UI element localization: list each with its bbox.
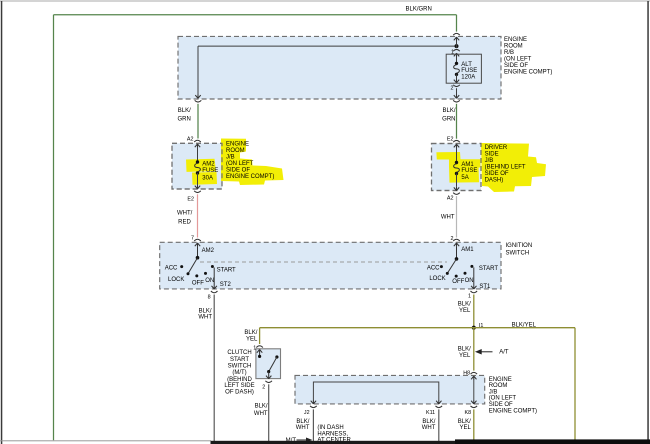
svg-text:ST2: ST2	[220, 282, 232, 288]
label BLK/WHT left	[198, 308, 212, 320]
wire AM1 feed inside switch	[456, 247, 458, 259]
connector R/B bottom left	[195, 94, 202, 102]
svg-text:E2: E2	[447, 137, 454, 143]
wire below AM2 fuse	[197, 173, 199, 185]
svg-text:2: 2	[262, 384, 265, 390]
wire inside R/B horizontal	[198, 45, 457, 47]
label CLUTCH START SWITCH	[224, 350, 254, 395]
wire to AM2 fuse	[197, 148, 199, 162]
svg-text:ENGINE COMPT): ENGINE COMPT)	[489, 408, 537, 414]
svg-text:(BEHIND LEFT: (BEHIND LEFT	[485, 164, 526, 170]
wire below AM1 fuse	[456, 174, 458, 187]
clutch switch arm and contacts	[267, 355, 278, 375]
labels left switch positions	[165, 266, 236, 287]
label AM2 FUSE 30A	[202, 161, 218, 181]
connector pin 1 of ALT fuse	[453, 49, 460, 57]
svg-text:A2: A2	[187, 136, 194, 142]
wire ST1	[473, 267, 475, 285]
wire AM2 feed inside switch	[197, 247, 199, 258]
svg-text:YEL: YEL	[459, 425, 471, 431]
label BLK/GRN left	[177, 108, 191, 123]
svg-text:YEL: YEL	[246, 336, 258, 342]
connector into R/B top	[453, 33, 460, 41]
wire BLK/YEL horizontal through I1	[260, 327, 575, 329]
connector E2 out of AM2 box	[194, 185, 201, 193]
svg-text:BLK/: BLK/	[244, 330, 257, 336]
svg-text:WHT: WHT	[198, 315, 212, 321]
switch contacts left	[180, 265, 214, 277]
svg-text:WHT: WHT	[441, 215, 455, 221]
svg-text:ON: ON	[205, 278, 214, 284]
svg-text:BLK/YEL: BLK/YEL	[512, 323, 537, 329]
svg-text:1: 1	[451, 49, 454, 55]
label IN DASH HARNESS	[317, 425, 351, 444]
wire inside bottom J/B H8 to K8	[473, 380, 475, 400]
connector A2 into AM2 box	[194, 140, 201, 148]
page frame left	[1, 1, 3, 444]
svg-text:AM2: AM2	[202, 248, 215, 254]
component box: CLUTCH START SWITCH solid box	[256, 349, 281, 379]
label IGNITION SWITCH	[506, 243, 533, 256]
svg-text:START: START	[230, 357, 249, 363]
svg-text:AM2: AM2	[202, 161, 215, 167]
svg-text:START: START	[217, 268, 236, 274]
label ENGINE ROOM J/B bottom	[489, 377, 537, 415]
label BLK/YEL above I1	[458, 302, 471, 315]
label BLK/WHT below K11	[422, 419, 436, 431]
connector A2 out of AM1 box	[453, 187, 460, 195]
svg-text:ALT: ALT	[461, 62, 472, 68]
wire BLK/YEL from pin 1	[473, 295, 475, 328]
arrow A/T pointer	[476, 350, 492, 354]
svg-text:(ON LEFT: (ON LEFT	[226, 161, 254, 167]
connector pin 2 of ALT fuse	[453, 79, 460, 87]
svg-text:RED: RED	[178, 220, 191, 226]
svg-text:GRN: GRN	[442, 117, 455, 123]
svg-text:SIDE OF: SIDE OF	[485, 171, 509, 177]
connector pin 2 out of clutch switch	[265, 375, 272, 383]
svg-text:BLK/: BLK/	[178, 108, 191, 114]
svg-text:I1: I1	[479, 323, 484, 329]
svg-text:WHT: WHT	[422, 425, 436, 431]
page frame right	[647, 1, 649, 444]
junction block: ENGINE ROOM J/B (AM2 fuse) dashed box	[172, 143, 222, 189]
label DRIVER SIDE J/B	[485, 145, 526, 184]
svg-text:AM1: AM1	[461, 247, 474, 253]
svg-text:YEL: YEL	[459, 308, 471, 314]
svg-text:SIDE: SIDE	[485, 151, 499, 157]
svg-text:CLUTCH: CLUTCH	[227, 350, 251, 356]
svg-text:K8: K8	[465, 410, 472, 416]
svg-text:OFF: OFF	[452, 279, 464, 285]
svg-text:J/B: J/B	[485, 158, 494, 164]
svg-text:OFF: OFF	[192, 281, 204, 287]
label BLK/WHT below clutch	[254, 403, 268, 417]
svg-text:8: 8	[208, 295, 211, 301]
wire to AM1 fuse	[456, 148, 458, 163]
wire BLK/YEL right vertical	[574, 328, 576, 441]
wire BLK/GRN drop into R/B	[456, 15, 458, 32]
labels right switch positions	[427, 265, 499, 285]
svg-text:BLK/: BLK/	[442, 108, 455, 114]
svg-text:R/B: R/B	[504, 50, 514, 56]
wire inside bottom J/B J2 to K11	[313, 382, 438, 400]
svg-text:BLK/: BLK/	[458, 347, 471, 353]
svg-text:7: 7	[191, 236, 194, 242]
wire BLK/GRN top horizontal	[54, 14, 457, 16]
svg-text:LOCK: LOCK	[429, 276, 445, 282]
highlight over AM1 fuse label	[436, 152, 480, 183]
svg-text:OF DASH): OF DASH)	[225, 390, 254, 396]
connector E2 into AM1 box	[453, 140, 460, 148]
linkage dashed line between wipers	[200, 261, 447, 263]
svg-text:(ON LEFT: (ON LEFT	[489, 396, 517, 402]
svg-text:J/B: J/B	[226, 155, 235, 161]
label WHT/RED	[177, 210, 193, 225]
wire below ALT fuse element	[456, 74, 458, 79]
page frame top	[0, 1, 650, 2]
label ALT FUSE 120A	[461, 62, 477, 80]
wire inside R/B right segment	[456, 41, 458, 48]
svg-text:BLK/GRN: BLK/GRN	[406, 7, 432, 13]
svg-text:LOCK: LOCK	[168, 277, 184, 283]
arrow M/T pointer	[297, 438, 312, 442]
svg-text:ENGINE COMPT): ENGINE COMPT)	[504, 70, 552, 76]
svg-text:FUSE: FUSE	[461, 168, 477, 174]
wire BLK/GRN left long vertical	[53, 15, 55, 441]
connector K8	[471, 400, 478, 408]
highlight over AM2 fuse label	[186, 159, 217, 185]
svg-text:BLK/: BLK/	[422, 419, 435, 425]
svg-text:SIDE OF: SIDE OF	[226, 168, 250, 174]
svg-text:ENGINE: ENGINE	[489, 377, 512, 383]
junction block border re-stroke: AM2 box	[172, 143, 222, 189]
svg-text:5A: 5A	[461, 175, 468, 181]
wire BLK/YEL below K8	[473, 409, 475, 441]
node junction above ALT fuse	[455, 44, 459, 48]
wire BLK/WHT below J2	[312, 409, 314, 441]
svg-text:START: START	[479, 266, 498, 272]
node I1	[472, 326, 476, 330]
svg-text:WHT: WHT	[296, 425, 310, 431]
svg-text:(BEHIND: (BEHIND	[227, 377, 252, 383]
connector pin 1 out of ignition switch	[471, 285, 478, 293]
label ENGINE ROOM J/B left	[226, 142, 274, 181]
svg-text:WHT/: WHT/	[177, 210, 193, 216]
svg-text:IGNITION: IGNITION	[506, 243, 533, 249]
wire BLK/WHT below clutch switch	[268, 384, 270, 441]
svg-text:1: 1	[468, 294, 471, 300]
switch wiper AM2	[188, 256, 199, 274]
svg-text:A/T: A/T	[499, 350, 509, 356]
bottom black bar	[211, 441, 461, 444]
label BLK/YEL clutch feed	[244, 330, 258, 342]
svg-text:(ON LEFT: (ON LEFT	[504, 57, 532, 63]
svg-text:ENGINE: ENGINE	[504, 37, 527, 43]
fuse ALT rect	[446, 54, 481, 83]
wire ST2	[213, 268, 215, 286]
svg-text:WHT: WHT	[254, 411, 268, 417]
wire to ALT fuse element	[456, 57, 458, 64]
wire BLK/WHT below K11	[438, 409, 440, 441]
junction block border re-stroke: AM1 box	[432, 144, 482, 191]
svg-text:ENGINE: ENGINE	[226, 142, 249, 148]
svg-text:DASH): DASH)	[485, 177, 504, 183]
svg-text:ROOM: ROOM	[489, 383, 508, 389]
svg-text:K11: K11	[426, 410, 435, 416]
wire BLK/YEL I1 to H8	[473, 328, 475, 371]
connector pin 2 into ignition switch	[453, 239, 460, 247]
svg-text:DRIVER: DRIVER	[485, 145, 508, 151]
label BLK/GRN right	[442, 108, 456, 123]
fuse ALT element	[454, 62, 460, 76]
connector J2	[310, 400, 317, 408]
label BLK/YEL below K8	[458, 419, 472, 431]
svg-text:ACC: ACC	[165, 266, 178, 272]
svg-text:SIDE OF: SIDE OF	[489, 402, 513, 408]
wire BLK/YEL drop to clutch switch	[259, 328, 261, 344]
svg-text:ON: ON	[465, 278, 474, 284]
svg-text:BLK/: BLK/	[458, 419, 471, 425]
svg-text:LEFT SIDE: LEFT SIDE	[224, 383, 254, 389]
svg-text:(IN DASH: (IN DASH	[317, 425, 343, 431]
svg-text:ROOM: ROOM	[504, 44, 523, 50]
wire BLK/GRN right branch	[456, 104, 458, 139]
svg-text:ROOM: ROOM	[226, 148, 245, 154]
label AM1 FUSE 5A	[461, 162, 477, 181]
svg-text:BLK/: BLK/	[199, 308, 212, 314]
svg-text:1: 1	[253, 346, 256, 352]
svg-text:SIDE OF: SIDE OF	[504, 63, 528, 69]
highlight over left ENGINE ROOM J/B label	[221, 139, 284, 186]
bottom thin rule left	[0, 440, 211, 441]
switch contacts right	[440, 265, 474, 278]
svg-text:BLK/: BLK/	[255, 403, 268, 409]
svg-text:30A: 30A	[202, 175, 213, 181]
component box: IGNITION SWITCH dashed box	[160, 242, 501, 289]
wire inside R/B left drop	[197, 46, 199, 94]
connector pin 1 into clutch switch	[256, 346, 263, 354]
label BLK/YEL below I1	[458, 347, 471, 359]
svg-text:SWITCH: SWITCH	[228, 364, 252, 370]
svg-text:H8: H8	[463, 371, 470, 377]
svg-text:A2: A2	[447, 196, 454, 202]
svg-text:E2: E2	[187, 196, 194, 202]
fuse AM1 element	[454, 161, 460, 175]
svg-text:J2: J2	[304, 410, 310, 416]
connector pin 8 out of ignition switch	[211, 285, 218, 293]
svg-text:ST1: ST1	[479, 284, 491, 290]
label BLK/WHT below J2	[296, 419, 310, 431]
fuse AM2 element	[195, 160, 201, 174]
svg-text:2: 2	[451, 86, 454, 92]
svg-text:ENGINE COMPT): ENGINE COMPT)	[226, 174, 274, 180]
highlight over DRIVER SIDE J/B label	[481, 143, 546, 192]
svg-text:120A: 120A	[461, 74, 475, 80]
connector pin 7 into ignition switch	[194, 239, 201, 247]
junction block: ENGINE ROOM J/B bottom dashed box	[295, 375, 485, 404]
svg-text:FUSE: FUSE	[461, 68, 477, 74]
connector K11	[436, 400, 443, 408]
clutch switch contact from pin 1	[258, 353, 261, 358]
wire BLK/GRN left branch	[197, 104, 199, 139]
switch wiper AM1	[447, 257, 458, 273]
wire WHT/RED	[197, 194, 199, 237]
wire BLK/WHT from pin 8	[213, 295, 215, 442]
wire WHT	[456, 196, 458, 237]
svg-text:BLK/: BLK/	[458, 302, 471, 308]
wire ALT fuse to box edge	[456, 88, 458, 94]
svg-text:J/B: J/B	[489, 389, 498, 395]
label ENGINE ROOM R/B	[504, 37, 552, 76]
svg-text:SWITCH: SWITCH	[506, 250, 530, 256]
junction block: DRIVER SIDE J/B (AM1 fuse) dashed box	[432, 144, 482, 191]
svg-text:2: 2	[451, 236, 454, 242]
svg-text:ACC: ACC	[427, 265, 440, 271]
connector H8 into bottom J/B	[471, 372, 478, 380]
junction block: ENGINE ROOM R/B dashed box	[178, 36, 501, 99]
svg-text:YEL: YEL	[459, 353, 471, 359]
svg-text:GRN: GRN	[177, 117, 190, 123]
connector R/B bottom right	[453, 94, 460, 102]
svg-text:(M/T): (M/T)	[232, 370, 246, 376]
svg-text:FUSE: FUSE	[202, 168, 218, 174]
